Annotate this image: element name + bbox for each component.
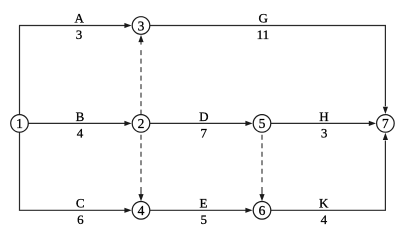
- svg-text:4: 4: [77, 125, 84, 140]
- svg-text:3: 3: [76, 27, 83, 42]
- svg-text:2: 2: [138, 116, 145, 131]
- svg-text:D: D: [199, 109, 208, 124]
- svg-text:K: K: [319, 196, 329, 211]
- svg-text:5: 5: [259, 116, 266, 131]
- svg-text:4: 4: [138, 203, 145, 218]
- svg-text:7: 7: [201, 125, 208, 140]
- svg-text:H: H: [319, 109, 328, 124]
- svg-text:6: 6: [259, 203, 266, 218]
- svg-text:G: G: [259, 11, 268, 26]
- svg-text:7: 7: [382, 116, 389, 131]
- svg-text:3: 3: [138, 18, 145, 33]
- svg-text:B: B: [76, 109, 85, 124]
- svg-text:11: 11: [257, 27, 270, 42]
- svg-text:C: C: [76, 196, 85, 211]
- svg-text:1: 1: [16, 116, 23, 131]
- svg-text:5: 5: [201, 212, 208, 227]
- svg-text:A: A: [75, 11, 85, 26]
- svg-text:6: 6: [77, 212, 84, 227]
- svg-text:E: E: [200, 196, 208, 211]
- svg-text:4: 4: [321, 212, 328, 227]
- svg-text:3: 3: [321, 125, 328, 140]
